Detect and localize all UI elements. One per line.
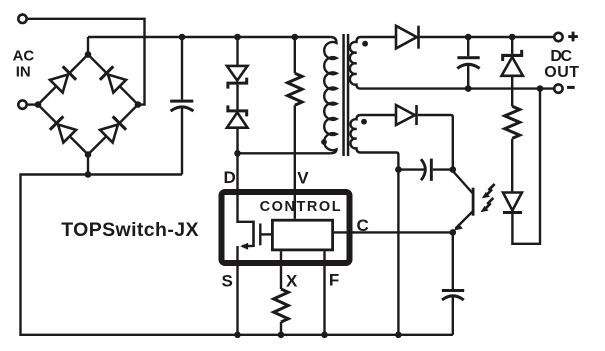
svg-text:CONTROL: CONTROL [260, 199, 343, 215]
transformer T1 primary [324, 37, 336, 153]
phase dot secondary [362, 41, 368, 47]
node X ground [278, 332, 285, 339]
terminal DC minus [554, 84, 562, 92]
svg-text:V: V [297, 169, 309, 188]
optocoupler LED [503, 193, 522, 211]
wire output rail [420, 36, 553, 38]
svg-text:D: D [224, 168, 236, 187]
plus mark [568, 32, 578, 42]
diode BR1 top-left [50, 65, 78, 93]
wire D node to primary [238, 152, 331, 154]
wire C pin inner segment [334, 231, 354, 233]
node bias right [450, 166, 457, 173]
terminal DC plus [554, 33, 562, 41]
svg-text:C: C [357, 216, 369, 235]
node D [234, 150, 241, 157]
node bias left [395, 166, 402, 173]
svg-text:S: S [222, 271, 233, 290]
resistor R3 X pin [274, 289, 289, 322]
svg-text:TOPSwitch-JX: TOPSwitch-JX [61, 219, 199, 241]
node output cap bottom [465, 85, 472, 92]
node S ground [234, 332, 241, 339]
zener VR2 clamp bottom [226, 105, 248, 116]
diode BR2 top-right [99, 65, 127, 93]
svg-text:AC: AC [13, 48, 35, 65]
svg-text:OUT: OUT [544, 64, 579, 81]
resistor R2 feedback [505, 106, 520, 138]
svg-text:IN: IN [16, 63, 31, 80]
node output cap top [465, 34, 472, 41]
light arrow 1 [482, 184, 495, 198]
transformer T1 bias winding [350, 115, 398, 170]
node bridge-bottom on rail [85, 171, 92, 178]
node bridge right [135, 101, 142, 108]
phase dot primary [321, 139, 327, 145]
mosfet gate bar [259, 224, 261, 246]
wire C pin [334, 231, 453, 233]
node C1 top [179, 34, 186, 41]
TOPSwitch block [222, 192, 350, 263]
mosfet source [242, 245, 254, 247]
wire V pin into control box (over text) [294, 195, 296, 219]
zener VR1 clamp top [236, 37, 238, 66]
svg-text:X: X [286, 272, 298, 291]
svg-text:DC: DC [550, 48, 572, 65]
wire bridge bottom down [87, 155, 89, 175]
node feedback return [537, 85, 544, 92]
terminal AC top [18, 15, 26, 23]
diode BR4 bottom-right [100, 115, 128, 143]
wire AC bottom stub [28, 103, 38, 105]
node bridge left [35, 101, 42, 108]
terminal AC bottom [18, 100, 26, 108]
wire bias return to ground [397, 170, 399, 335]
wire bias diode to node [418, 115, 453, 170]
node bias ground [395, 332, 402, 339]
resistor R1 line-sense to V [294, 37, 296, 73]
wire X pin [280, 251, 282, 289]
capacitor C1 input filter [181, 37, 183, 100]
node R1 top [292, 34, 299, 41]
node clamp top [234, 34, 241, 41]
wire lower-left rail [21, 175, 453, 335]
wire top AC to bridge right [28, 19, 145, 105]
node F ground [321, 332, 328, 339]
phase dot bias [361, 119, 367, 125]
transformer core [342, 34, 345, 156]
diode D1 output rectifier [396, 26, 417, 49]
optocoupler phototransistor [453, 171, 473, 194]
capacitor C4 control pin [452, 232, 454, 289]
svg-text:F: F [329, 271, 339, 290]
bridge rectifier frame [38, 55, 138, 155]
wire F pin [323, 251, 325, 334]
diode D2 bias rectifier [396, 105, 415, 125]
wire clamp middle [236, 85, 238, 110]
diode BR3 bottom-left [49, 115, 77, 143]
zener VR3 output [511, 37, 513, 54]
capacitor C3 bias filter [398, 168, 424, 170]
wire D pin into mosfet [238, 153, 254, 222]
mosfet channel bar [252, 221, 255, 247]
control box [272, 220, 332, 250]
capacitor C2 output [467, 37, 469, 56]
node zener top [509, 34, 516, 41]
wire gate to control box [260, 233, 272, 235]
wire top rail [88, 36, 330, 38]
node bridge bottom [85, 151, 92, 158]
transformer T1 secondary [350, 37, 553, 89]
minus mark [567, 86, 575, 89]
light arrow 2 [480, 198, 493, 212]
node emitter / C [450, 229, 457, 236]
node bridge top [85, 51, 92, 58]
wire bridge top to rail [87, 37, 89, 55]
